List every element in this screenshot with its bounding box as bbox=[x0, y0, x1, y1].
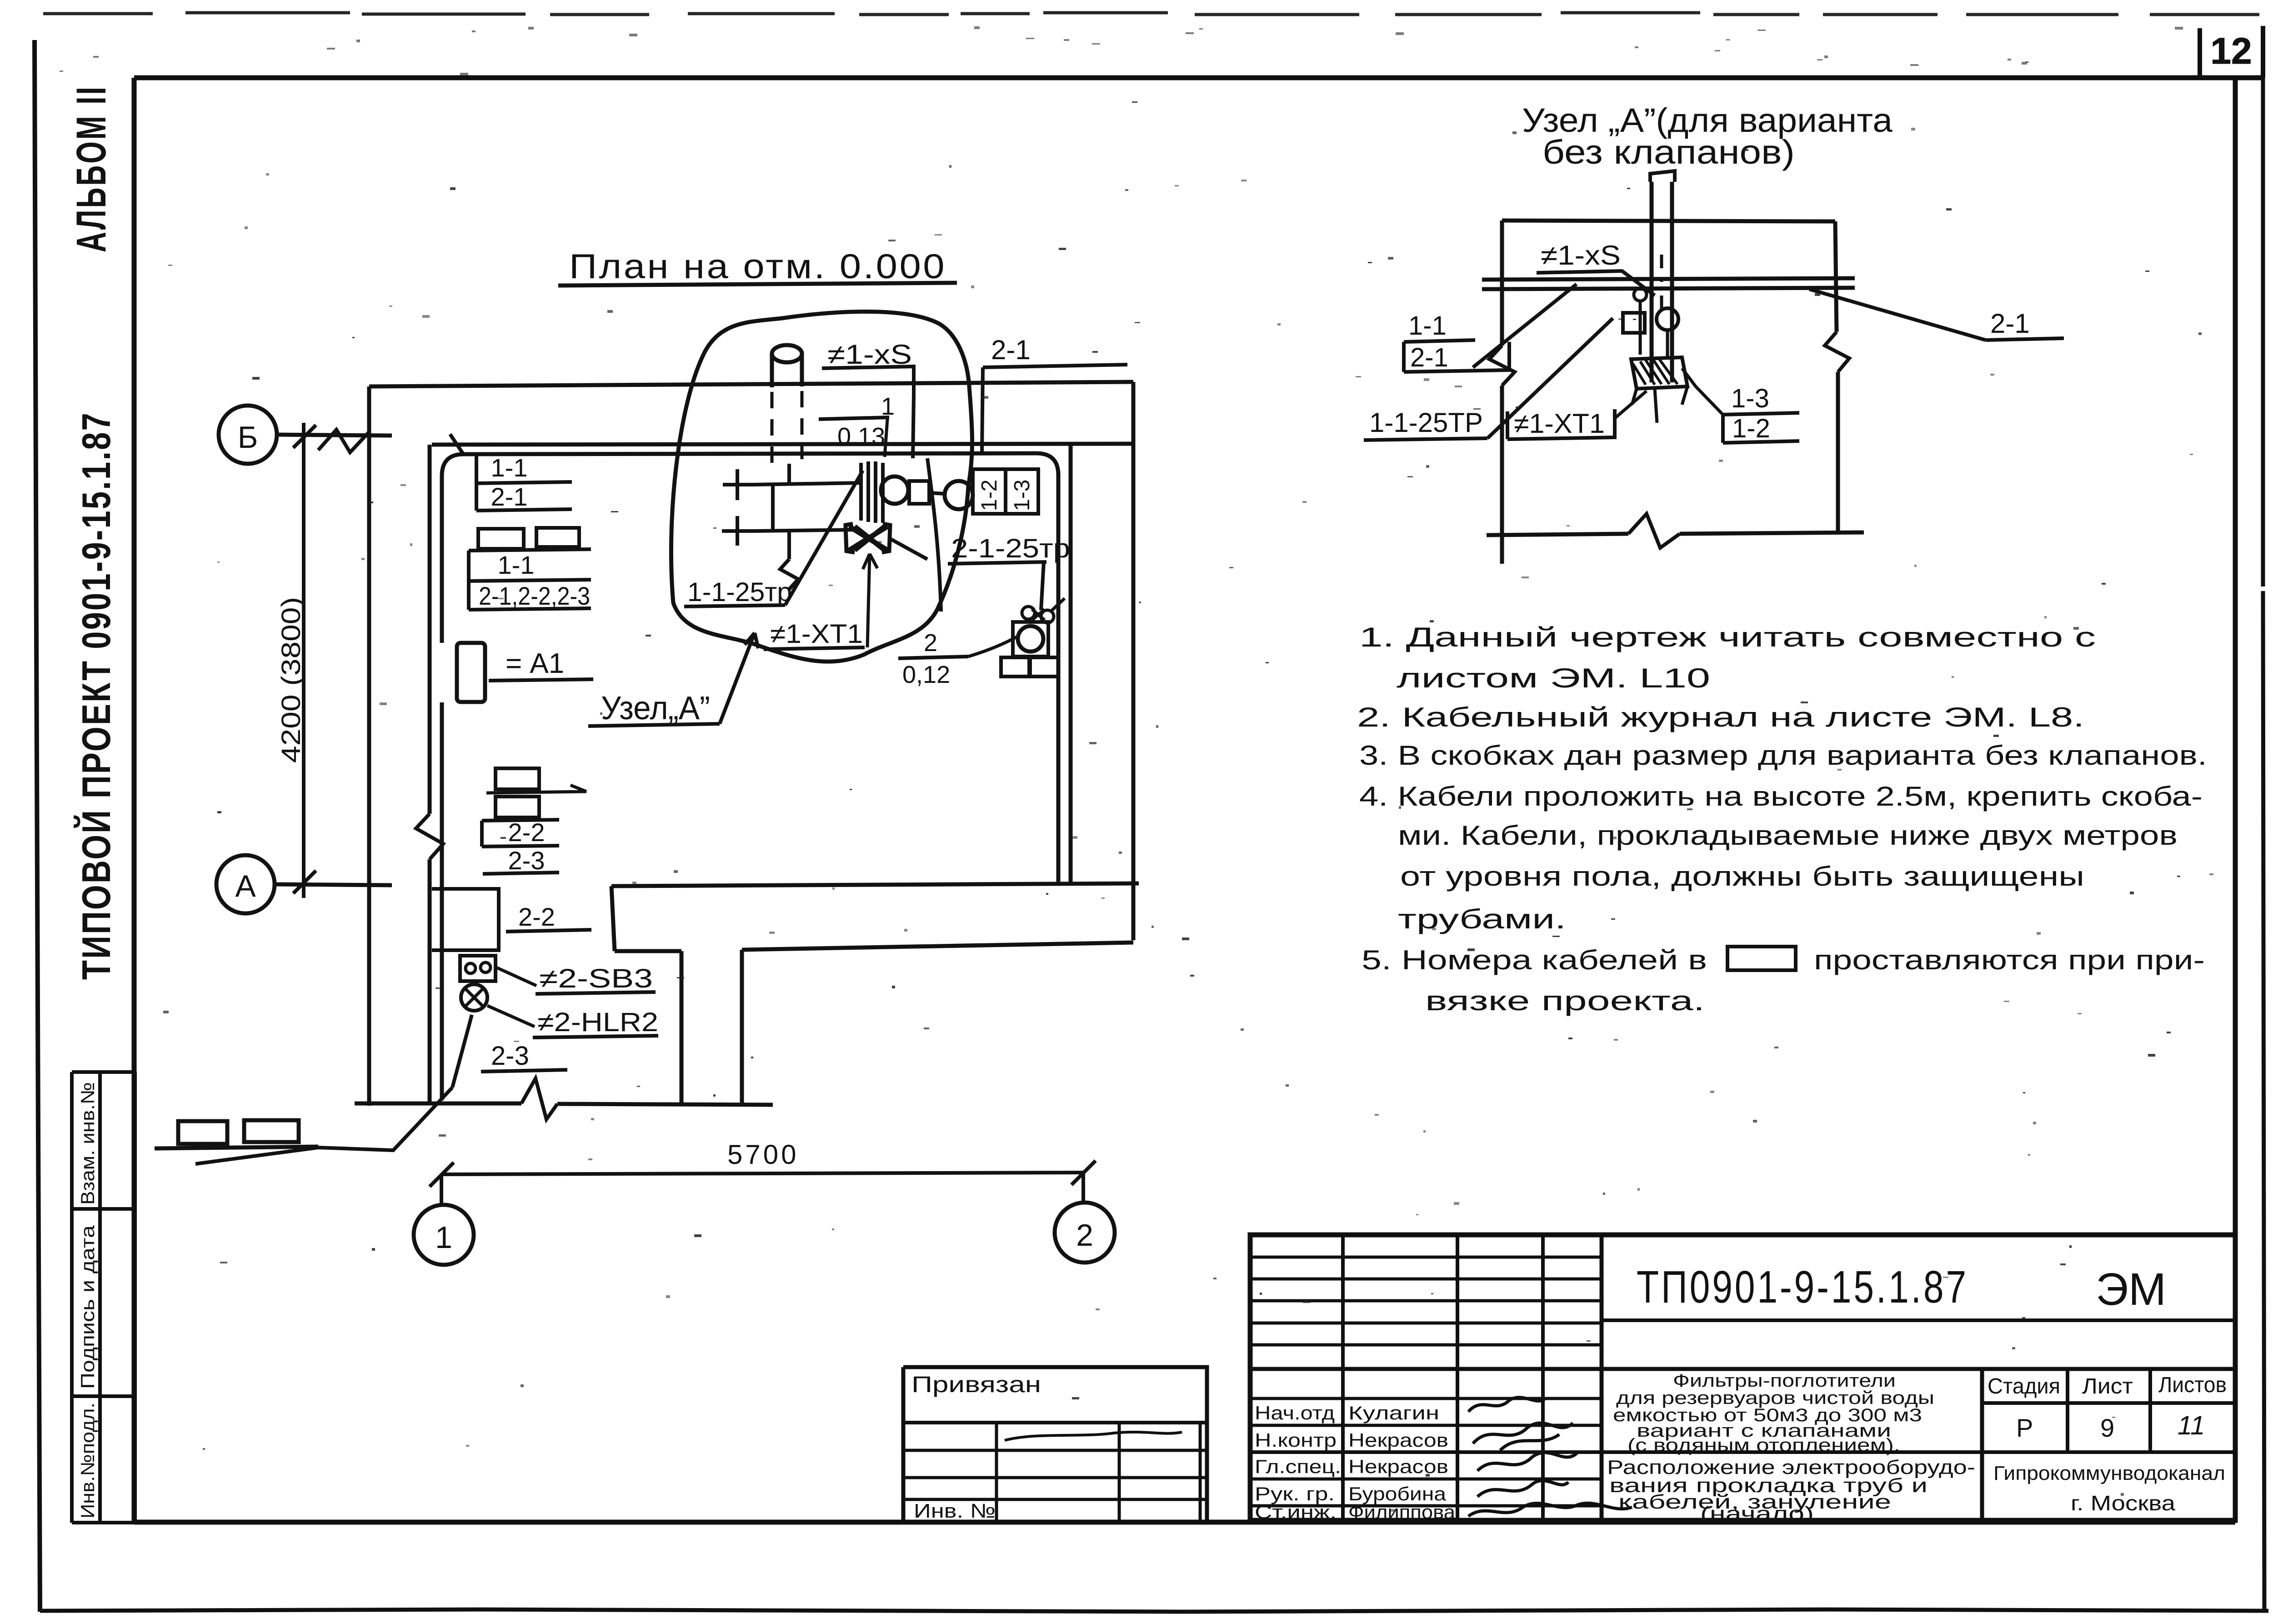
svg-text:11: 11 bbox=[2178, 1411, 2205, 1440]
svg-text:≠1-ХТ1: ≠1-ХТ1 bbox=[770, 619, 863, 649]
svg-text:0.13: 0.13 bbox=[837, 423, 885, 450]
svg-text:Ст.инж.: Ст.инж. bbox=[1255, 1501, 1337, 1523]
axis A leader bbox=[275, 884, 392, 885]
left sheet border bbox=[35, 40, 40, 1612]
svg-text:= А1: = А1 bbox=[506, 648, 564, 679]
svg-text:1-3: 1-3 bbox=[1010, 480, 1034, 511]
switch symbol bbox=[460, 956, 496, 981]
wall left edge with break bbox=[1500, 221, 1504, 564]
svg-text:без клапанов): без клапанов) bbox=[1542, 133, 1795, 171]
middle row full bbox=[1250, 1450, 2235, 1454]
svg-text:2: 2 bbox=[924, 629, 937, 657]
axis A circle bbox=[216, 855, 275, 913]
svg-text:(с водяным отоплением).: (с водяным отоплением). bbox=[1627, 1435, 1900, 1455]
svg-text:2-1-25тр: 2-1-25тр bbox=[951, 534, 1070, 563]
svg-text:Р: Р bbox=[2016, 1413, 2033, 1442]
svg-text:Инв.№подл.: Инв.№подл. bbox=[77, 1403, 98, 1519]
svg-text:Подпись и дата: Подпись и дата bbox=[77, 1225, 98, 1389]
label box 1-1 / 2-1,2-2,2-3 bbox=[469, 549, 591, 551]
svg-text:ТИПОВОЙ ПРОЕКТ 0901-9-15.1.87: ТИПОВОЙ ПРОЕКТ 0901-9-15.1.87 bbox=[74, 411, 119, 980]
svg-text:12: 12 bbox=[2210, 30, 2252, 72]
svg-text:трубами.: трубами. bbox=[1398, 904, 1566, 934]
two small rects row1 bbox=[478, 529, 524, 549]
equipment center: small circle o bbox=[1634, 288, 1647, 301]
svg-text:0,12: 0,12 bbox=[902, 661, 950, 688]
svg-text:План на отм. 0.000: План на отм. 0.000 bbox=[569, 247, 946, 286]
right sheet edge line bbox=[2263, 27, 2264, 1609]
lower room bottom wall bbox=[355, 1103, 773, 1105]
circle unit bbox=[1657, 308, 1678, 330]
main outline bbox=[1250, 1235, 2235, 1520]
switch leader bbox=[496, 967, 536, 986]
left margin mini table bbox=[72, 1072, 135, 1523]
svg-text:1-1-25тр: 1-1-25тр bbox=[687, 577, 792, 607]
right section verticals bbox=[1980, 1369, 1984, 1520]
curve cable to pump bbox=[927, 458, 941, 612]
svg-text:Гл.спец.: Гл.спец. bbox=[1255, 1456, 1341, 1477]
vertical dimension line 4200 bbox=[302, 423, 305, 898]
svg-text:Некрасов: Некрасов bbox=[1348, 1456, 1448, 1477]
svg-text:ЭМ: ЭМ bbox=[2096, 1264, 2166, 1315]
building outer wall right bbox=[1131, 382, 1136, 940]
svg-text:Филиппова: Филиппова bbox=[1348, 1501, 1456, 1523]
small rect unit bbox=[1623, 313, 1645, 333]
bottom wall band of main room bbox=[611, 883, 1139, 886]
svg-text:Н.контр: Н.контр bbox=[1255, 1429, 1337, 1451]
small dark connection below bbox=[849, 526, 887, 550]
vertical separators bbox=[1600, 1235, 1604, 1520]
svg-text:Листов: Листов bbox=[2158, 1373, 2227, 1397]
svg-text:Нач.отд: Нач.отд bbox=[1255, 1402, 1335, 1424]
svg-text:листом ЭМ. L10: листом ЭМ. L10 bbox=[1397, 663, 1710, 693]
device A1 rect bbox=[457, 643, 485, 702]
leader from box to wall bbox=[1473, 284, 1577, 367]
1-2 / 1-3 vertical label boxes bbox=[973, 469, 1006, 514]
svg-text:≠1-ХТ1: ≠1-ХТ1 bbox=[1514, 408, 1605, 439]
svg-text:ми. Кабели, прокладываемые ниж: ми. Кабели, прокладываемые ниже двух мет… bbox=[1398, 820, 2178, 851]
lamp symbol bbox=[461, 984, 487, 1011]
two small rects bottom-left outside bbox=[178, 1121, 227, 1144]
svg-text:1-2: 1-2 bbox=[977, 480, 1001, 511]
left grid top rows bbox=[1250, 1257, 1602, 1345]
svg-text:5700: 5700 bbox=[727, 1139, 799, 1170]
svg-text:2-2: 2-2 bbox=[518, 902, 555, 931]
svg-text:Некрасов: Некрасов bbox=[1348, 1429, 1448, 1451]
svg-text:Гипрокоммунводоканал: Гипрокоммунводоканал bbox=[1993, 1462, 2225, 1484]
pipe vertical bbox=[1652, 182, 1672, 382]
cable vertical along left wall bbox=[440, 476, 444, 1100]
top wall left end zigzag + arrow bbox=[318, 430, 369, 452]
svg-text:1-2: 1-2 bbox=[1732, 414, 1770, 443]
cylinder top-middle bbox=[772, 345, 802, 362]
top noisy sheet edge bbox=[43, 13, 2259, 15]
svg-text:Инв. №: Инв. № bbox=[914, 1500, 996, 1522]
svg-text:≠1-хS: ≠1-хS bbox=[1541, 240, 1621, 271]
pipe tee left bbox=[722, 464, 861, 559]
dimension line 5700 bbox=[441, 1173, 1083, 1174]
svg-text:1-3: 1-3 bbox=[1731, 384, 1769, 413]
filter unit hatched bbox=[861, 461, 883, 523]
wall rectangle top bbox=[1502, 221, 1835, 221]
svg-text:от уровня пола, должны быть за: от уровня пола, должны быть защищены bbox=[1400, 861, 2084, 892]
svg-text:2-1: 2-1 bbox=[1990, 308, 2030, 339]
svg-text:1. Данный чертеж читать совмес: 1. Данный чертеж читать совместно с bbox=[1359, 622, 2096, 652]
valve above pump bbox=[1022, 606, 1035, 619]
svg-text:Лист: Лист bbox=[2082, 1374, 2133, 1398]
svg-text:2. Кабельный журнал на листе Э: 2. Кабельный журнал на листе ЭМ. L8. bbox=[1357, 702, 2084, 732]
svg-text:2-1,2-2,2-3: 2-1,2-2,2-3 bbox=[479, 581, 590, 610]
svg-text:5. Номера кабелей в: 5. Номера кабелей в bbox=[1362, 945, 1707, 975]
corridor partition going down bbox=[681, 950, 742, 1104]
leader diagonal from rects to lamp area bbox=[195, 1088, 452, 1164]
ground line bottom bbox=[1487, 532, 1864, 535]
lamp leader bbox=[487, 1006, 535, 1027]
wall right edge with break bbox=[1835, 221, 1838, 534]
svg-text:(начало): (начало) bbox=[1700, 1503, 1814, 1525]
svg-text:Стадия: Стадия bbox=[1988, 1374, 2060, 1398]
svg-text:≠2-SВ3: ≠2-SВ3 bbox=[539, 964, 653, 993]
svg-text:Узел„А”: Узел„А” bbox=[601, 690, 710, 727]
bottom sheet border bbox=[40, 1609, 2268, 1612]
full row line bbox=[1250, 1367, 2235, 1371]
page number box 12 bbox=[2200, 26, 2263, 78]
axis B leader bbox=[277, 435, 392, 436]
svg-text:вязке проекта.: вязке проекта. bbox=[1425, 986, 1705, 1016]
step wall piece near 2-2 label bbox=[432, 889, 499, 950]
svg-text:2-1: 2-1 bbox=[991, 335, 1031, 365]
svg-text:АЛЬБОМ II: АЛЬБОМ II bbox=[68, 85, 115, 252]
privyazan table bbox=[903, 1367, 1207, 1520]
svg-text:4200 (3800): 4200 (3800) bbox=[276, 597, 306, 763]
doc cell bottom bbox=[1602, 1318, 2235, 1322]
hatching on unit bbox=[1633, 359, 1677, 385]
small rects row2 with arrow bbox=[496, 768, 539, 789]
cloud uzel A boundary bbox=[671, 311, 972, 662]
wall break zigzag left bbox=[416, 814, 443, 859]
building outer wall top bbox=[369, 382, 1133, 386]
svg-text:3. В скобках дан размер для ва: 3. В скобках дан размер для варианта без… bbox=[1359, 740, 2207, 771]
floor double line bbox=[1482, 278, 1855, 289]
pump bottom right bbox=[1018, 626, 1043, 652]
building inner wall top bbox=[432, 444, 1133, 445]
svg-text:проставляются при при-: проставляются при при- bbox=[1814, 945, 2205, 975]
svg-text:Взам. инв.№: Взам. инв.№ bbox=[77, 1082, 98, 1205]
svg-text:Привязан: Привязан bbox=[911, 1372, 1041, 1397]
zigzag break bottom bbox=[521, 1078, 557, 1119]
svg-text:2-2: 2-2 bbox=[508, 818, 545, 847]
svg-text:2-1: 2-1 bbox=[1410, 343, 1448, 372]
cable route rounded rect top bbox=[464, 453, 1058, 882]
svg-text:А: А bbox=[235, 869, 256, 903]
svg-text:2-3: 2-3 bbox=[508, 846, 545, 875]
building outer wall left bbox=[367, 386, 371, 1106]
lower unit box bbox=[1631, 357, 1687, 389]
left grid lower rows bbox=[1250, 1398, 1602, 1506]
svg-text:Б: Б bbox=[238, 420, 258, 455]
svg-text:Кулагин: Кулагин bbox=[1348, 1402, 1439, 1424]
axis 1 circle bbox=[414, 1205, 474, 1265]
svg-text:2-3: 2-3 bbox=[491, 1041, 529, 1071]
svg-text:4. Кабели проложить на высоте: 4. Кабели проложить на высоте 2.5м, креп… bbox=[1359, 781, 2203, 812]
svg-text:1-1: 1-1 bbox=[498, 551, 535, 579]
building inner wall left bbox=[428, 445, 432, 1103]
svg-text:2: 2 bbox=[1076, 1218, 1093, 1253]
svg-text:≠2-НLR2: ≠2-НLR2 bbox=[537, 1007, 658, 1037]
svg-text:1-1: 1-1 bbox=[1408, 311, 1447, 341]
axis B circle bbox=[219, 406, 277, 464]
signatures squiggles bbox=[1468, 1398, 1546, 1412]
svg-text:1-1-25ТР: 1-1-25ТР bbox=[1369, 407, 1483, 438]
svg-text:1-1: 1-1 bbox=[491, 453, 528, 482]
svg-text:1: 1 bbox=[435, 1220, 452, 1255]
svg-text:2-1: 2-1 bbox=[491, 482, 528, 511]
svg-text:ТП0901-9-15.1.87: ТП0901-9-15.1.87 bbox=[1637, 1262, 1968, 1313]
axis 2 circle bbox=[1055, 1203, 1115, 1263]
